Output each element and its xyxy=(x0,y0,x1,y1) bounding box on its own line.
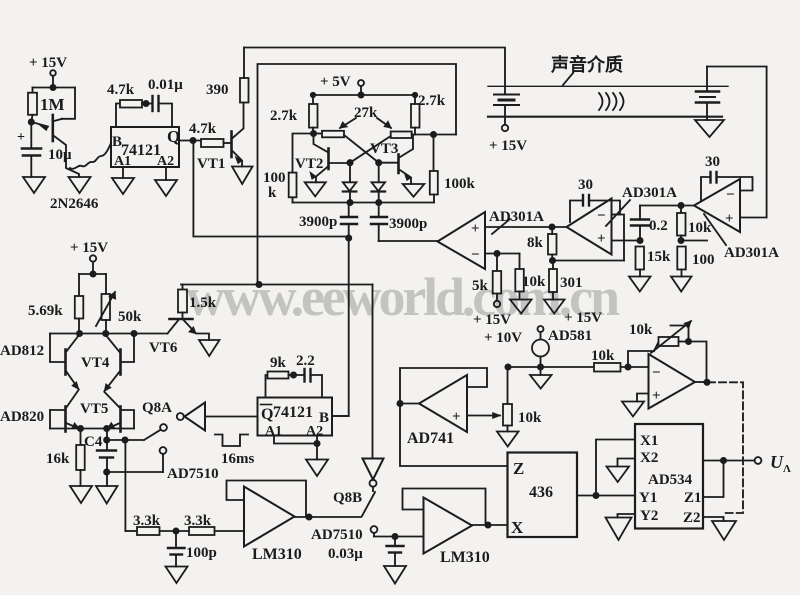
wire base bus VT4 xyxy=(50,331,168,336)
svg-text:8k: 8k xyxy=(527,235,544,251)
svg-text:Q8B: Q8B xyxy=(333,490,362,506)
svg-text:+ 5V: + 5V xyxy=(320,74,351,90)
op-amp U7 LM310 second xyxy=(424,498,490,567)
inverter Q8A driver xyxy=(177,403,205,431)
svg-text:0.01μ: 0.01μ xyxy=(148,77,183,93)
resistor 5k xyxy=(472,254,501,301)
wire pot to output node xyxy=(689,342,707,383)
ground below C4 xyxy=(96,486,118,504)
power +15V terminal top-left xyxy=(29,55,67,90)
wire to 100k left xyxy=(293,134,314,173)
svg-text:+ 15V: + 15V xyxy=(29,55,67,71)
svg-text:390: 390 xyxy=(206,82,229,98)
reference AD581 xyxy=(532,326,592,375)
svg-text:VT4: VT4 xyxy=(81,355,110,371)
ground below VT6 xyxy=(199,340,220,356)
power +15V terminal under left transducer xyxy=(489,125,527,154)
svg-text:10k: 10k xyxy=(591,348,615,364)
IC U8 436 divider xyxy=(508,453,578,538)
switch Q8A xyxy=(107,400,172,443)
svg-text:3900p: 3900p xyxy=(389,216,427,232)
svg-text:AD741: AD741 xyxy=(407,430,454,447)
svg-text:+ 15V: + 15V xyxy=(564,310,602,326)
svg-text:X: X xyxy=(511,518,524,537)
label 27k with arrows xyxy=(340,105,391,128)
svg-text:2N2646: 2N2646 xyxy=(50,196,99,212)
resistor 15k xyxy=(636,247,672,277)
transistor VT2 xyxy=(295,134,350,183)
svg-text:10k: 10k xyxy=(688,220,712,236)
svg-text:0.03μ: 0.03μ xyxy=(328,546,363,562)
svg-text:Z1: Z1 xyxy=(684,490,702,506)
wire emitter bus xyxy=(293,202,435,204)
resistor 16k xyxy=(46,429,85,487)
potentiometer 50k xyxy=(96,274,142,334)
ground below 10k comparator xyxy=(510,300,532,314)
svg-text:LM310: LM310 xyxy=(440,549,490,566)
svg-text:−: − xyxy=(597,208,606,224)
wire first amp output xyxy=(640,203,694,208)
svg-text:74121: 74121 xyxy=(273,404,313,421)
svg-text:声音介质: 声音介质 xyxy=(550,54,623,75)
transducer left xyxy=(494,95,519,125)
op-amp U9 AD741 xyxy=(407,375,467,447)
diode D2 xyxy=(372,163,386,205)
wire +5V rail xyxy=(311,93,417,97)
ground below UJT xyxy=(69,177,91,193)
resistor 1.5k xyxy=(178,285,217,320)
capacitor C4 xyxy=(84,429,116,487)
node VT2 collector junction xyxy=(311,131,316,136)
svg-text:0.2: 0.2 xyxy=(649,218,668,234)
wire LM310 feedback xyxy=(227,481,307,518)
svg-text:2.7k: 2.7k xyxy=(270,108,298,124)
wire top rail to transducer xyxy=(244,48,505,95)
wire 10k bottom stub xyxy=(681,240,707,242)
ground below 10u xyxy=(23,177,45,193)
wire Q8A node down xyxy=(124,440,126,531)
ground below 100 xyxy=(671,277,692,292)
IC U1 74121 monostable xyxy=(111,127,180,169)
ground below 301 xyxy=(544,300,565,314)
svg-text:Q8A: Q8A xyxy=(142,400,172,416)
svg-text:Z: Z xyxy=(513,459,524,478)
ground below 0.03u xyxy=(384,566,406,584)
svg-text:301: 301 xyxy=(560,275,583,291)
svg-text:VT1: VT1 xyxy=(197,156,225,172)
op-amp U2 AD301A first xyxy=(694,179,740,232)
wire AD741 plus to pot wiper xyxy=(467,413,500,419)
ground below 100p xyxy=(166,567,188,584)
potentiometer 10k vertical xyxy=(503,367,542,432)
svg-text:10k: 10k xyxy=(518,410,542,426)
wire comparator input xyxy=(379,240,438,242)
wire middle amp minus loop xyxy=(612,215,625,261)
svg-text:LM310: LM310 xyxy=(252,546,302,563)
label sound medium 声音介质 xyxy=(550,54,623,85)
transducer right xyxy=(696,67,719,121)
resistor 2.7k left xyxy=(270,95,318,134)
svg-text:2.2: 2.2 xyxy=(296,353,315,369)
wire UJT B2 loop xyxy=(62,88,75,119)
svg-text:100: 100 xyxy=(692,252,715,268)
svg-text:3900p: 3900p xyxy=(299,214,337,230)
switch Q8B xyxy=(311,487,377,543)
svg-text:+: + xyxy=(471,221,480,237)
resistor 27k right xyxy=(391,132,456,139)
resistor 301 xyxy=(549,261,583,300)
svg-text:VT2: VT2 xyxy=(295,156,323,172)
IC U5 74121 second xyxy=(258,398,333,440)
resistor 3.3k first xyxy=(133,513,189,535)
resistor 27k left xyxy=(314,131,345,138)
transistor VT5 right xyxy=(80,392,134,432)
wire integrator plus to ground xyxy=(622,394,649,417)
resistor 10k comparator xyxy=(515,254,546,300)
svg-text:+: + xyxy=(452,409,461,425)
svg-text:3.3k: 3.3k xyxy=(184,513,212,529)
svg-text:4.7k: 4.7k xyxy=(189,121,217,137)
label AD301A comparator xyxy=(489,209,544,234)
svg-text:+ 15V: + 15V xyxy=(489,138,527,154)
svg-text:436: 436 xyxy=(529,484,553,501)
resistor 4.7k base VT1 xyxy=(189,121,232,147)
capacitor 30p middle xyxy=(570,177,620,222)
svg-text:30: 30 xyxy=(578,177,593,193)
ground Z2 xyxy=(703,517,736,540)
wire LM310 second feedback xyxy=(403,489,486,525)
svg-text:Q: Q xyxy=(261,406,273,423)
capacitor 3900p right xyxy=(371,203,427,242)
capacitor 0.03u xyxy=(328,537,404,567)
svg-text:−: − xyxy=(471,247,480,263)
wire inverter to 74121 xyxy=(205,416,258,418)
svg-text:C4: C4 xyxy=(84,434,103,450)
svg-text:+: + xyxy=(17,130,25,145)
svg-text:−: − xyxy=(652,365,661,381)
ground below VT2 xyxy=(305,182,326,196)
svg-text:Z2: Z2 xyxy=(683,510,701,526)
resistor 10k feedback divider xyxy=(677,206,712,244)
label AD301A first xyxy=(704,214,779,261)
wire cross coupling xyxy=(344,135,391,165)
wire LM310 second output xyxy=(472,522,508,527)
wire sound medium bottom line xyxy=(488,116,722,118)
resistor 100k left xyxy=(263,170,297,203)
svg-text:10μ: 10μ xyxy=(48,147,72,163)
svg-text:5k: 5k xyxy=(472,278,489,294)
svg-text:9k: 9k xyxy=(270,355,287,371)
wire 3900p left down to 74121 B xyxy=(332,224,351,416)
ground below VT3 xyxy=(403,184,425,197)
svg-text:VT6: VT6 xyxy=(149,340,178,356)
svg-text:100p: 100p xyxy=(186,545,217,561)
ground below right transducer xyxy=(695,120,724,137)
ground below A1 xyxy=(112,167,134,194)
wire comparator minus row xyxy=(485,251,520,256)
svg-text:AD301A: AD301A xyxy=(724,245,779,261)
capacitor 0.01u timing xyxy=(148,77,183,127)
wire down to Q8B inverter xyxy=(372,285,374,459)
wire transducer to amp input xyxy=(707,67,767,218)
svg-text:+: + xyxy=(652,388,661,404)
wire integrator output xyxy=(695,380,710,385)
wire LM310 output xyxy=(295,514,362,519)
wire output terminal xyxy=(703,457,761,464)
wire 8k node to minus loop xyxy=(553,260,625,262)
svg-text:VT3: VT3 xyxy=(370,141,398,157)
wire to LM310 second input xyxy=(374,534,424,539)
wire squiggle B1 to 74121 B input xyxy=(70,143,111,169)
transistor VT1 xyxy=(197,103,244,173)
svg-text:−: − xyxy=(726,187,735,203)
svg-text:X2: X2 xyxy=(640,450,658,466)
wire Q to coupling line down xyxy=(193,141,348,237)
svg-text:A2: A2 xyxy=(306,424,323,439)
svg-text:5.69k: 5.69k xyxy=(28,303,63,319)
svg-text:+ 10V: + 10V xyxy=(484,330,522,346)
svg-text:Y2: Y2 xyxy=(640,508,658,524)
op-amp U3 AD301A middle xyxy=(567,199,612,255)
capacitor 30p first xyxy=(701,154,753,201)
svg-text:15k: 15k xyxy=(647,249,671,265)
op-amp U4 AD301A comparator xyxy=(438,212,486,269)
ground below 15k xyxy=(629,277,651,292)
resistor 3.3k second xyxy=(184,513,244,535)
power +15V terminal mid-left xyxy=(70,240,108,277)
svg-text:4.7k: 4.7k xyxy=(107,82,135,98)
node 2.7k right to 100k right xyxy=(431,132,436,137)
wire +15V rail xyxy=(33,87,76,89)
svg-text:+: + xyxy=(597,231,606,247)
wire B input xyxy=(332,415,349,417)
potentiometer 10k integrator feedback xyxy=(628,321,691,367)
resistor 4.7k timing xyxy=(107,82,153,127)
wire +10V rail xyxy=(505,364,594,369)
ground below 16k xyxy=(70,486,92,503)
svg-text:Q: Q xyxy=(167,127,180,146)
wire middle amp output node xyxy=(485,224,567,229)
ground below 74121 second xyxy=(274,436,328,477)
svg-text:1M: 1M xyxy=(40,95,65,114)
wire mid rail xyxy=(79,273,106,275)
svg-text:UΛ: UΛ xyxy=(770,452,791,475)
wire dashed offset loop xyxy=(708,382,743,513)
resistor 100k right xyxy=(430,135,476,203)
svg-text:50k: 50k xyxy=(118,309,142,325)
transistor VT3 xyxy=(370,135,413,185)
wire 0.2 node to mid amp plus xyxy=(613,240,640,242)
transistor 2N2646 UJT xyxy=(29,115,99,212)
resistor 100 xyxy=(677,247,714,277)
svg-text:k: k xyxy=(268,185,277,201)
svg-text:+ 15V: + 15V xyxy=(70,240,108,256)
svg-text:1.5k: 1.5k xyxy=(189,295,217,311)
svg-text:X1: X1 xyxy=(640,433,658,449)
capacitor 3900p left xyxy=(299,203,357,231)
svg-text:AD534: AD534 xyxy=(648,472,693,488)
diode D1 xyxy=(343,163,357,205)
wire AD741 output to 436 Z xyxy=(400,404,508,467)
resistor 2.7k right xyxy=(411,93,446,135)
inverter Q8B driver xyxy=(333,459,384,507)
ground below 10k pot xyxy=(497,432,519,447)
transistor VT4 left xyxy=(50,334,79,390)
svg-text:2.7k: 2.7k xyxy=(418,93,446,109)
svg-text:AD581: AD581 xyxy=(548,328,592,344)
svg-text:AD7510: AD7510 xyxy=(167,466,219,482)
resistor 1M xyxy=(28,88,65,123)
svg-text:16k: 16k xyxy=(46,451,70,467)
IC U11 AD534 multiplier xyxy=(635,424,703,529)
power +15V terminal below 5k xyxy=(473,301,511,328)
resistor 8k xyxy=(527,227,557,263)
transistor VT5 left xyxy=(50,390,79,432)
svg-text:27k: 27k xyxy=(354,105,378,121)
wire sound medium top line xyxy=(488,85,728,87)
power +5V terminal xyxy=(320,74,364,98)
capacitor 10u xyxy=(17,122,72,177)
wire Z1 to output node xyxy=(703,461,724,498)
transistor VT6 xyxy=(149,319,209,356)
sound waves xyxy=(599,93,624,110)
svg-text:+ 15V: + 15V xyxy=(473,312,511,328)
svg-text:AD301A: AD301A xyxy=(622,185,677,201)
switch AD7510 control terminal xyxy=(107,447,219,482)
op-amp U10 integrator xyxy=(649,354,696,409)
label 16ms pulse xyxy=(215,435,254,468)
svg-text:Y1: Y1 xyxy=(639,490,657,506)
wire enclosure frame top xyxy=(258,64,457,285)
capacitor 0.2u coupling xyxy=(631,206,668,244)
resistor 390 xyxy=(206,48,249,103)
wire box bottom rail xyxy=(181,282,373,287)
svg-text:10k: 10k xyxy=(629,322,653,338)
ground below A2 xyxy=(155,167,177,196)
wire 3.3k input row xyxy=(125,528,178,533)
svg-text:AD7510: AD7510 xyxy=(311,527,363,543)
svg-text:30: 30 xyxy=(705,154,720,170)
svg-text:VT5: VT5 xyxy=(80,401,108,417)
transistor VT4 right xyxy=(81,334,134,392)
svg-text:AD812: AD812 xyxy=(0,343,44,359)
svg-text:16ms: 16ms xyxy=(221,451,254,467)
resistor 10k integrator input xyxy=(591,348,649,372)
ground X2 xyxy=(607,459,636,483)
ground below AD581 xyxy=(530,375,552,389)
capacitor 2.2 xyxy=(296,353,322,398)
svg-text:100k: 100k xyxy=(444,176,476,192)
op-amp U6 LM310 first xyxy=(244,487,302,564)
label AD301A middle xyxy=(606,185,677,226)
ground Y2 xyxy=(606,514,636,540)
wire UJT B1 to ground xyxy=(54,136,79,177)
wire 436 output to X1 Y1 xyxy=(577,440,635,499)
svg-text:AD301A: AD301A xyxy=(489,209,544,225)
svg-text:3.3k: 3.3k xyxy=(133,513,161,529)
svg-text:AD820: AD820 xyxy=(0,409,44,425)
svg-text:100: 100 xyxy=(263,170,286,186)
svg-text:+: + xyxy=(725,211,734,227)
ground below VT1 xyxy=(232,167,253,185)
resistor 5.69k xyxy=(28,274,83,334)
wire emitter bus VT5 xyxy=(50,426,134,431)
svg-text:10k: 10k xyxy=(522,274,546,290)
wire Q output xyxy=(179,138,201,143)
wire AD741 feedback xyxy=(397,368,487,406)
capacitor 100p xyxy=(168,531,217,567)
resistor 9k xyxy=(266,355,305,398)
